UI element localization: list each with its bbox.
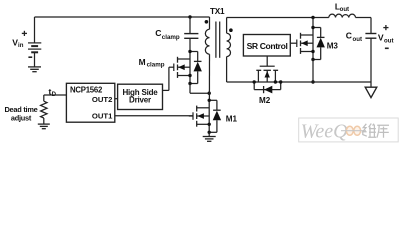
svg-text:C: C bbox=[155, 28, 161, 38]
svg-text:WeeQ: WeeQ bbox=[301, 120, 349, 142]
transistor M3 bbox=[297, 26, 325, 61]
transformer TX1 core bbox=[216, 22, 220, 58]
label C_clamp bbox=[155, 28, 180, 41]
node M3 drain tap bbox=[311, 16, 314, 19]
svg-text:NCP1562: NCP1562 bbox=[70, 86, 103, 95]
capacitor C_clamp bbox=[184, 34, 198, 39]
wire High Side Driver to M_clamp gate bbox=[163, 67, 169, 90]
ground (M1 source) bbox=[203, 137, 216, 142]
transistor M2 bbox=[253, 66, 283, 93]
label M_clamp bbox=[139, 57, 165, 69]
capacitor C_out bbox=[365, 34, 376, 39]
transistor M1 bbox=[189, 99, 221, 134]
svg-text:SR Control: SR Control bbox=[247, 41, 288, 51]
label Dead time adjust bbox=[4, 105, 37, 123]
label High Side Driver bbox=[122, 88, 158, 105]
svg-text:out: out bbox=[353, 36, 362, 43]
label - (Vout) bbox=[385, 47, 389, 49]
svg-text:in: in bbox=[18, 42, 24, 49]
SR Control box bbox=[243, 35, 290, 57]
transformer TX1 primary winding bbox=[205, 17, 209, 100]
label C_out bbox=[346, 30, 362, 43]
transformer TX1 secondary winding bbox=[227, 18, 231, 83]
resistor dead-time (zigzag) bbox=[41, 101, 47, 118]
label + (battery) bbox=[22, 31, 27, 36]
High Side Driver box bbox=[118, 84, 163, 109]
wire M3 drain from top rail bbox=[312, 18, 314, 28]
node secondary phasing dot bbox=[229, 28, 233, 32]
node M3 source on rail bbox=[311, 80, 314, 83]
svg-text:M3: M3 bbox=[327, 42, 339, 51]
svg-text:out: out bbox=[384, 38, 393, 45]
wire battery negative lead bbox=[34, 52, 36, 67]
svg-text:TX1: TX1 bbox=[210, 7, 225, 16]
wire SR Control to M3 gate bbox=[290, 42, 297, 44]
wire M3 source to output return rail bbox=[312, 60, 314, 83]
label tD bbox=[49, 86, 57, 98]
watermark box WeeQoo bbox=[299, 118, 399, 142]
wire OUT2 to High Side Driver bbox=[115, 98, 118, 100]
wire L_out to output node bbox=[356, 18, 372, 34]
svg-text:M: M bbox=[139, 57, 146, 67]
node switch node junction bbox=[208, 92, 211, 95]
wire tD pin to resistor bbox=[44, 95, 67, 101]
label Vin bbox=[12, 38, 23, 49]
ground (input) bbox=[28, 67, 41, 72]
svg-text:M1: M1 bbox=[226, 114, 238, 123]
wire M1 source to ground bbox=[208, 132, 210, 136]
svg-text:C: C bbox=[346, 30, 352, 40]
ground (dead-time resistor) bbox=[38, 124, 50, 129]
wire rail to C_clamp bbox=[189, 17, 191, 33]
wire output return rail bbox=[227, 81, 371, 83]
wire resistor to ground bbox=[43, 118, 45, 124]
op-amp/controller U1 NCP1562 box bbox=[66, 83, 114, 122]
label + (Vout) bbox=[383, 25, 388, 30]
svg-text:out: out bbox=[340, 6, 349, 13]
svg-text:adjust: adjust bbox=[11, 114, 32, 123]
wire SR Control to M2 gate bbox=[266, 56, 268, 66]
label L_out bbox=[335, 1, 349, 13]
ground (output, open triangle) bbox=[365, 82, 377, 98]
transistor M_clamp bbox=[169, 50, 202, 85]
label Vout bbox=[378, 33, 394, 45]
svg-text:V: V bbox=[378, 33, 384, 43]
node primary phasing dot bbox=[205, 20, 209, 24]
wire secondary top rail to L_out bbox=[227, 17, 329, 19]
wire OUT1 to M1 gate bbox=[115, 115, 193, 117]
inductor L_out bbox=[329, 14, 356, 17]
wire M_clamp source to switch node bbox=[190, 84, 209, 94]
svg-text:clamp: clamp bbox=[147, 61, 165, 68]
wire C_out to return rail bbox=[370, 38, 372, 82]
svg-text:OUT1: OUT1 bbox=[92, 112, 113, 121]
wire top rail left (Vin+ to transformer primary) bbox=[35, 16, 210, 18]
node C_clamp tap on input rail bbox=[188, 15, 191, 18]
battery Vin bbox=[28, 43, 41, 52]
wire C_clamp to M_clamp bbox=[189, 38, 191, 51]
wire battery positive lead bbox=[34, 17, 36, 43]
svg-text:Driver: Driver bbox=[129, 96, 151, 105]
label - (battery) bbox=[28, 56, 32, 58]
svg-text:M2: M2 bbox=[259, 96, 271, 105]
svg-text:clamp: clamp bbox=[162, 34, 180, 41]
svg-text:OUT2: OUT2 bbox=[92, 95, 113, 104]
